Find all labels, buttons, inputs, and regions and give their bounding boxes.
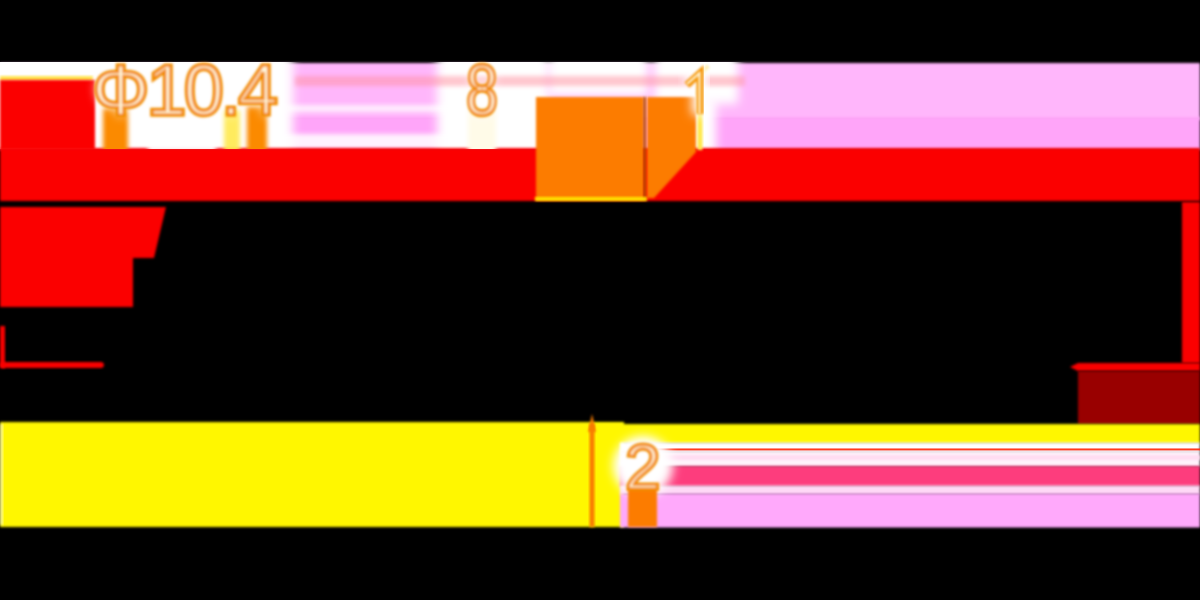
red bracket horizontal line bbox=[0, 362, 104, 368]
right red vertical bar bbox=[1182, 202, 1200, 363]
glow zone around dimension text 8 bbox=[437, 52, 549, 156]
pink band lower bbox=[0, 117, 1200, 150]
svg-text:Φ10.4: Φ10.4 bbox=[92, 51, 278, 131]
glow zone around dimension text 1 bbox=[654, 52, 738, 104]
hot pink band bbox=[620, 466, 1200, 487]
leader line of dimension 2 bbox=[590, 424, 595, 527]
extension line glow under PHI bbox=[103, 108, 128, 154]
red bracket vertical line bbox=[0, 326, 5, 368]
glow zone above orange pad bbox=[548, 52, 648, 96]
right red dimension strip with arrowhead bbox=[1070, 363, 1200, 371]
bottom pink band bbox=[620, 494, 1200, 528]
right yellow strip bbox=[594, 424, 1200, 444]
glow of dimension text PHI10.4 bbox=[92, 51, 278, 131]
pink band upper bbox=[0, 63, 1200, 120]
yellow bottom edge of pad 1 bbox=[535, 197, 647, 201]
white-yellow trail under 8 bbox=[468, 108, 496, 154]
glow of dimension text 2 bbox=[613, 436, 673, 496]
leader hook of 1 bbox=[698, 66, 709, 95]
thin red line in white band bbox=[645, 449, 1200, 451]
svg-text:8: 8 bbox=[466, 51, 498, 131]
leader arrow of dimension 2 bbox=[588, 414, 596, 432]
salmon glow streak bbox=[295, 76, 745, 86]
leader line under 1 bbox=[698, 80, 703, 150]
orange pad 1 bbox=[536, 97, 644, 200]
yellow block left bbox=[0, 422, 624, 527]
glow of dimension text 8 bbox=[466, 51, 498, 131]
white streak at band bottom bbox=[280, 134, 470, 149]
glow zone around dimension text PHI10.4 bbox=[0, 52, 293, 156]
svg-text:2: 2 bbox=[625, 431, 661, 503]
extension line glow under 4 bbox=[247, 106, 267, 154]
red band bbox=[0, 148, 1200, 201]
right white band bbox=[620, 443, 1200, 453]
pale pink band bbox=[620, 451, 1200, 467]
dimension text 1 bbox=[687, 73, 700, 114]
lower-left red block with wedge bbox=[0, 207, 166, 307]
left red block upper bbox=[0, 80, 95, 150]
yellow top edge of left red block bbox=[0, 76, 93, 81]
orange block under 2 bbox=[628, 488, 657, 527]
seam between pads bbox=[644, 97, 647, 200]
yellow trail left of 4 bbox=[224, 110, 240, 154]
white streak in pink band bbox=[285, 105, 465, 112]
orange pad 2 chamfered bbox=[647, 97, 696, 198]
dark red block bbox=[1078, 371, 1200, 424]
glow column under 1 stem bbox=[686, 98, 716, 156]
pale strip below hot pink bbox=[620, 486, 1200, 495]
glow of dimension text 1 bbox=[688, 72, 700, 115]
white trail under 10 bbox=[148, 110, 216, 154]
white sliver at left edge of yellow block bbox=[0, 424, 3, 525]
